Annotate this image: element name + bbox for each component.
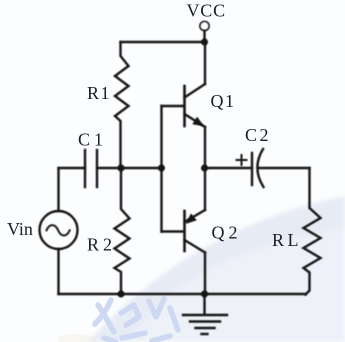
svg-text:Q1: Q1 xyxy=(211,91,236,111)
svg-text:RL: RL xyxy=(272,230,302,250)
svg-text:R1: R1 xyxy=(87,83,111,103)
svg-text:C1: C1 xyxy=(78,130,107,150)
svg-text:R2: R2 xyxy=(87,235,116,255)
svg-text:Q2: Q2 xyxy=(212,223,242,243)
svg-text:C2: C2 xyxy=(245,125,271,145)
svg-text:Vin: Vin xyxy=(7,219,33,239)
svg-text:VCC: VCC xyxy=(187,1,226,21)
